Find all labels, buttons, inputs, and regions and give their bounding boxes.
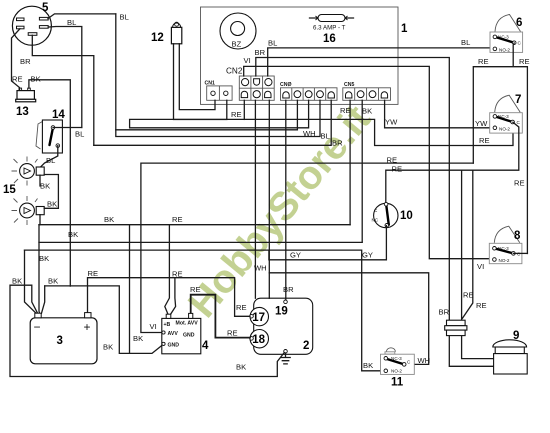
wire RE sw7 C second stem bbox=[386, 122, 519, 204]
svg-text:−: − bbox=[34, 320, 41, 334]
svg-text:9: 9 bbox=[513, 330, 519, 342]
connector CN0 bbox=[280, 82, 337, 100]
svg-text:BL: BL bbox=[268, 38, 277, 47]
svg-text:NC-3: NC-3 bbox=[498, 246, 509, 251]
svg-text:BK: BK bbox=[363, 361, 373, 370]
svg-text:BK: BK bbox=[39, 254, 49, 263]
horn 13 bbox=[16, 88, 36, 118]
microswitch 6 bbox=[490, 15, 523, 53]
svg-text:17: 17 bbox=[252, 312, 265, 324]
svg-text:RE: RE bbox=[479, 136, 490, 145]
svg-text:WH: WH bbox=[418, 356, 431, 365]
lamp switch 14 bbox=[36, 109, 65, 153]
svg-text:RE: RE bbox=[12, 75, 23, 84]
svg-text:RE: RE bbox=[478, 57, 489, 66]
module 4 bbox=[162, 313, 209, 353]
svg-text:BZ: BZ bbox=[232, 40, 242, 49]
wire BR CN2 to connector bbox=[256, 58, 449, 321]
wire RE rail drops to connector bbox=[462, 170, 473, 320]
svg-text:BR: BR bbox=[439, 308, 450, 317]
wire GY-BK battery to sw11 bbox=[25, 250, 384, 371]
wire RE module MotAVV loop to 18 bbox=[191, 295, 250, 338]
wire RE to valve upper port bbox=[462, 336, 494, 359]
wire BL sw14 top bbox=[53, 127, 82, 129]
wire RE main CN0pin3 to sw7 bbox=[130, 100, 513, 145]
svg-text:BL: BL bbox=[120, 13, 129, 22]
svg-text:CNØ: CNØ bbox=[280, 82, 292, 88]
wire BR CN0 pin5 bbox=[94, 100, 331, 145]
svg-text:19: 19 bbox=[275, 306, 288, 318]
svg-text:GND: GND bbox=[168, 343, 180, 349]
fuel valve 9 bbox=[493, 330, 527, 374]
wire BK lamp down to bus bbox=[39, 175, 41, 225]
wire GY sw10 to left bbox=[269, 226, 387, 260]
sensor 12 bbox=[151, 22, 182, 44]
svg-text:BR: BR bbox=[332, 139, 343, 148]
svg-text:6.3 AMP - T: 6.3 AMP - T bbox=[313, 25, 346, 32]
svg-text:RE: RE bbox=[190, 285, 201, 294]
svg-text:CN5: CN5 bbox=[344, 82, 354, 88]
svg-text:RE: RE bbox=[519, 57, 530, 66]
svg-text:BK: BK bbox=[362, 107, 372, 116]
connector CN5 bbox=[343, 82, 391, 100]
wire BR to valve lower port bbox=[449, 336, 493, 367]
wire BR CN0pin1 to 19 bbox=[285, 100, 287, 301]
battery 3 bbox=[30, 313, 97, 364]
connector CN2 bbox=[226, 67, 274, 101]
engine unit 2 bbox=[250, 298, 313, 354]
svg-text:BL: BL bbox=[461, 38, 470, 47]
buzzer BZ bbox=[220, 13, 256, 49]
svg-text:BK: BK bbox=[12, 277, 22, 286]
wire VI CN2 to sw8 bbox=[244, 66, 495, 258]
svg-text:BK: BK bbox=[68, 230, 78, 239]
svg-text:6: 6 bbox=[516, 17, 522, 29]
svg-text:10: 10 bbox=[400, 210, 413, 222]
svg-text:+: + bbox=[84, 320, 91, 334]
svg-text:RE: RE bbox=[387, 155, 398, 164]
wire BK engine to bus bbox=[10, 285, 284, 376]
svg-text:GY: GY bbox=[290, 251, 301, 260]
svg-text:RE: RE bbox=[172, 270, 183, 279]
svg-text:NO-2: NO-2 bbox=[499, 48, 510, 53]
ground at engine bbox=[281, 353, 290, 364]
ignition switch SW5 bbox=[12, 2, 51, 45]
wire BK horn-drop to battery bbox=[45, 286, 164, 354]
svg-text:RE: RE bbox=[236, 303, 247, 312]
svg-text:VI: VI bbox=[150, 322, 157, 331]
wire BK drop to engine bbox=[254, 100, 256, 298]
svg-text:RE: RE bbox=[340, 106, 351, 115]
wire CN0 pin2 bbox=[116, 100, 298, 130]
svg-text:+B: +B bbox=[164, 322, 171, 328]
wire BL CN2 to sw6 bbox=[268, 48, 495, 76]
svg-text:4: 4 bbox=[202, 340, 209, 352]
svg-text:RE: RE bbox=[227, 329, 238, 338]
svg-text:BR: BR bbox=[255, 48, 266, 57]
wire BL ignition to corner bbox=[48, 14, 116, 19]
microswitch 11 bbox=[381, 348, 415, 389]
svg-text:NC-3: NC-3 bbox=[391, 356, 402, 361]
wire BR ignition bottom bbox=[32, 35, 94, 145]
svg-text:YW: YW bbox=[475, 119, 488, 128]
svg-text:NC: NC bbox=[372, 218, 379, 223]
svg-text:BL: BL bbox=[75, 130, 84, 139]
svg-text:BK: BK bbox=[47, 200, 57, 209]
headlamps 15 bbox=[3, 157, 44, 226]
svg-text:BK: BK bbox=[133, 334, 143, 343]
wire BL ignition to lamp switch bbox=[48, 27, 82, 128]
wire CN2 bot1 stub bbox=[243, 100, 245, 119]
wire RE to module +B funnel bbox=[165, 225, 176, 315]
wire RE ignition to horn bbox=[12, 29, 21, 91]
wire WH to sw11 C bbox=[269, 273, 428, 365]
wire BK lamp link bbox=[44, 175, 58, 209]
fuse F1 6.3A bbox=[310, 15, 354, 46]
svg-text:12: 12 bbox=[151, 32, 164, 44]
svg-text:GY: GY bbox=[362, 251, 373, 260]
svg-text:RE: RE bbox=[88, 269, 99, 278]
svg-text:RE: RE bbox=[463, 291, 474, 300]
wire BL CN0 pin4 bbox=[116, 14, 320, 137]
svg-text:AVV: AVV bbox=[168, 331, 179, 337]
wire RE CN5 pin1 to junctions bbox=[349, 100, 351, 224]
svg-text:BK: BK bbox=[103, 343, 113, 352]
wire lamp-line to module gnd bbox=[129, 225, 131, 353]
wire BL sw14 to lamp bbox=[40, 146, 58, 168]
svg-text:BR: BR bbox=[283, 285, 294, 294]
svg-text:WH: WH bbox=[303, 129, 316, 138]
microswitch 7 bbox=[490, 94, 523, 133]
connector CN1 bbox=[205, 81, 233, 101]
svg-text:NO-2: NO-2 bbox=[499, 258, 510, 263]
svg-text:RE: RE bbox=[392, 165, 403, 174]
wire 12 to CN1 pin1 bbox=[179, 44, 215, 110]
wire RE sw6 long to module AVV bbox=[141, 163, 473, 332]
svg-text:BK: BK bbox=[40, 182, 50, 191]
svg-text:BK: BK bbox=[48, 277, 58, 286]
svg-text:2: 2 bbox=[303, 340, 309, 352]
svg-text:BL: BL bbox=[67, 18, 76, 27]
svg-text:BL: BL bbox=[321, 132, 330, 141]
wire BK CN5 pin2 bbox=[361, 100, 363, 242]
svg-text:NO-2: NO-2 bbox=[391, 368, 402, 373]
svg-text:VI: VI bbox=[244, 56, 251, 65]
svg-text:RE: RE bbox=[172, 215, 183, 224]
svg-text:11: 11 bbox=[391, 377, 404, 389]
svg-text:7: 7 bbox=[515, 94, 521, 106]
svg-text:NC-3: NC-3 bbox=[498, 114, 509, 119]
svg-text:16: 16 bbox=[323, 33, 336, 45]
svg-text:NO-2: NO-2 bbox=[499, 127, 510, 132]
wire BK battery funnels bbox=[25, 225, 40, 314]
wire BK second bbox=[39, 241, 362, 243]
svg-text:15: 15 bbox=[3, 184, 16, 196]
svg-text:WH: WH bbox=[254, 264, 267, 273]
svg-text:BK: BK bbox=[104, 215, 114, 224]
svg-text:VI: VI bbox=[477, 262, 484, 271]
svg-text:BK: BK bbox=[31, 75, 41, 84]
svg-text:CN2: CN2 bbox=[226, 67, 243, 76]
svg-text:3: 3 bbox=[57, 335, 63, 347]
wire RE battery+ to module and 17 bbox=[88, 278, 251, 317]
svg-text:1: 1 bbox=[401, 23, 408, 35]
svg-text:YW: YW bbox=[385, 118, 398, 127]
svg-text:Mot. AVV: Mot. AVV bbox=[176, 321, 199, 327]
switch 10 bbox=[372, 202, 413, 227]
svg-text:RE: RE bbox=[476, 301, 487, 310]
wire BK battery bus top bbox=[39, 224, 350, 226]
svg-text:5: 5 bbox=[42, 2, 49, 14]
svg-text:14: 14 bbox=[52, 109, 65, 121]
svg-text:GND: GND bbox=[183, 333, 195, 339]
svg-text:NC-3: NC-3 bbox=[498, 35, 509, 40]
svg-text:BR: BR bbox=[20, 57, 31, 66]
svg-text:BL: BL bbox=[46, 156, 55, 165]
control unit box U1 bbox=[201, 7, 399, 104]
connector inline bbox=[445, 320, 467, 335]
wire sw8 C link bbox=[513, 252, 527, 254]
wire 12 to CN1 pin2 RE bbox=[174, 44, 227, 120]
wire BK horn right up-over-down bbox=[29, 80, 70, 286]
wire YW CN5 pin4 to sw7 bbox=[385, 100, 495, 128]
wire WH CN2bot3 to engine bbox=[268, 100, 270, 298]
microswitch 8 bbox=[489, 226, 522, 264]
svg-text:13: 13 bbox=[16, 106, 29, 118]
wire RE sw6 C split bbox=[473, 43, 527, 254]
svg-text:18: 18 bbox=[252, 334, 265, 346]
svg-text:RE: RE bbox=[231, 110, 242, 119]
svg-text:8: 8 bbox=[514, 230, 521, 242]
svg-text:RE: RE bbox=[514, 179, 525, 188]
